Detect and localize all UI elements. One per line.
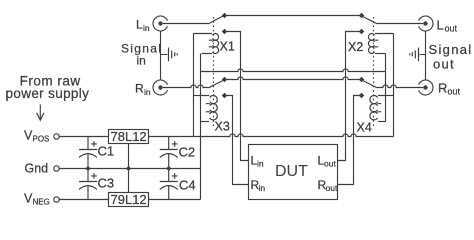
label DUT pin R_in <box>251 178 266 193</box>
label Signal in <box>121 42 162 68</box>
positive rail with hops <box>149 134 394 137</box>
mechanical link dashed left <box>213 17 215 127</box>
connector J2 R_in jack <box>153 80 167 95</box>
wire DUT R_out to switch <box>338 96 362 185</box>
junction C2 gnd <box>167 167 171 171</box>
regulator center pins to ground <box>128 144 130 193</box>
label J2 R_in <box>135 82 151 98</box>
wire X1 top to positive rail <box>193 34 195 137</box>
wire X1 bottom to negative rail <box>200 54 202 200</box>
svg-text:L: L <box>136 18 143 32</box>
switch S2a lever <box>362 16 378 24</box>
wire switch to L_out jack <box>377 23 423 25</box>
wire bypass R with hops <box>225 77 362 80</box>
node S1b throw bottom <box>222 93 228 99</box>
label From raw power supply <box>6 73 90 101</box>
wire R_in to switch with hops <box>163 85 209 88</box>
node S1b throw top <box>222 77 228 83</box>
label V_NEG <box>24 192 50 207</box>
wire coil link bus with hops <box>201 69 386 72</box>
wire output shield down <box>425 31 427 80</box>
DUT box <box>249 145 338 200</box>
capacitor C1 <box>79 137 97 169</box>
ground rail <box>59 168 200 170</box>
switch S1b lever <box>209 80 225 88</box>
capacitor C4 <box>160 169 178 200</box>
node S1a throw top <box>222 13 228 19</box>
junction regulators gnd <box>127 167 131 171</box>
wire switch to R_out jack with hops <box>377 85 423 88</box>
capacitor C2 <box>160 137 178 169</box>
label V_POS <box>24 129 49 144</box>
wire V_POS to 78L12 <box>59 136 108 138</box>
svg-text:out: out <box>433 57 455 72</box>
label J3 L_out <box>437 18 458 34</box>
relay coil X1 <box>194 34 219 54</box>
regulator 79L12 <box>109 192 149 207</box>
connector J4 R_out jack <box>419 80 433 95</box>
node S2b throw top <box>359 77 365 83</box>
svg-text:C1: C1 <box>98 144 115 159</box>
svg-text:in: in <box>137 53 146 67</box>
wire X2 bottom down <box>385 54 387 122</box>
svg-text:X2: X2 <box>348 40 363 54</box>
terminal Gnd <box>54 166 59 171</box>
svg-text:out: out <box>326 183 338 193</box>
mechanical link dashed right <box>373 17 375 127</box>
svg-text:C3: C3 <box>98 176 115 191</box>
svg-text:power supply: power supply <box>6 86 90 101</box>
svg-text:in: in <box>143 23 150 33</box>
label DUT pin R_out <box>318 178 338 193</box>
wire V_NEG to 79L12 <box>59 199 108 201</box>
label DUT pin L_out <box>318 154 337 169</box>
wire switch to DUT L_in <box>225 32 249 161</box>
svg-text:X4: X4 <box>357 121 372 135</box>
svg-text:DUT: DUT <box>275 163 308 180</box>
svg-text:X3: X3 <box>215 120 230 134</box>
relay coil X2 <box>368 34 393 54</box>
label Signal out <box>429 42 473 72</box>
junction C1 gnd <box>86 167 90 171</box>
svg-text:C2: C2 <box>179 145 196 160</box>
svg-text:POS: POS <box>33 135 50 144</box>
svg-text:in: in <box>257 159 264 169</box>
svg-text:X1: X1 <box>220 40 235 54</box>
relay coil X3 <box>194 95 218 121</box>
svg-text:in: in <box>144 87 151 97</box>
capacitor C3 <box>79 169 97 200</box>
svg-text:out: out <box>445 24 458 34</box>
svg-text:78L12: 78L12 <box>111 129 147 144</box>
svg-text:Signal: Signal <box>429 42 473 57</box>
terminal V_POS <box>54 134 59 139</box>
svg-text:Gnd: Gnd <box>25 162 49 176</box>
ground output side <box>410 48 426 62</box>
wire DUT L_out to switch <box>338 32 362 161</box>
connector J3 L_out jack <box>419 16 433 31</box>
node S2a throw top <box>359 13 365 19</box>
label J1 L_in <box>136 18 150 34</box>
svg-text:C4: C4 <box>179 178 196 193</box>
ground input side <box>161 48 178 62</box>
wire bypass L <box>225 15 362 17</box>
wire X2 top to positive rail <box>393 34 395 137</box>
terminal V_NEG <box>54 197 59 202</box>
svg-text:NEG: NEG <box>33 198 50 207</box>
svg-text:in: in <box>259 183 266 193</box>
svg-text:out: out <box>448 87 461 97</box>
switch S2b lever <box>362 80 378 88</box>
svg-text:out: out <box>324 159 336 169</box>
wire input shield down <box>160 31 162 80</box>
label J4 R_out <box>438 81 461 97</box>
negative rail <box>149 199 201 201</box>
relay coil X4 <box>370 95 394 121</box>
svg-text:79L12: 79L12 <box>111 192 147 207</box>
node S1a throw bottom <box>222 29 228 35</box>
switch S1a lever <box>209 16 224 24</box>
svg-text:R: R <box>135 82 144 96</box>
wire L_in to switch <box>163 23 209 25</box>
svg-text:R: R <box>438 81 447 96</box>
regulator 78L12 <box>109 129 149 144</box>
svg-text:L: L <box>437 18 444 33</box>
connector J1 L_in jack <box>153 16 167 31</box>
wire switch to DUT R_in <box>225 96 249 185</box>
arrow to supply terminals <box>37 105 44 121</box>
label DUT pin L_in <box>251 154 264 169</box>
node S2a throw bottom <box>359 29 365 35</box>
node S2b throw bottom <box>359 93 365 99</box>
